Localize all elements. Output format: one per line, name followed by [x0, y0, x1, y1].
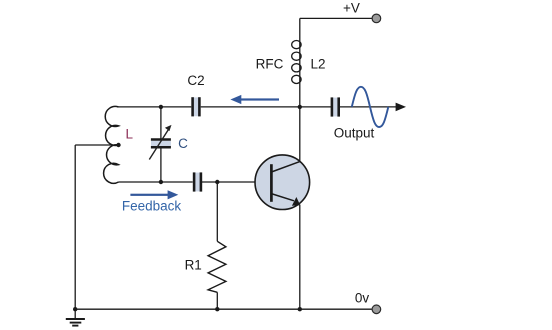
wire top rail mid: C2 to collector node — [201, 106, 331, 108]
svg-text:RFC: RFC — [256, 56, 284, 71]
arrow feedback (blue, pointing right) — [130, 190, 178, 199]
svg-text:Output: Output — [334, 125, 375, 140]
svg-text:L2: L2 — [310, 56, 325, 71]
wire emitter down — [299, 205, 301, 310]
arrow (blue, pointing left) above top rail — [230, 95, 279, 104]
inductor L (tank coil) — [104, 106, 119, 183]
svg-text:C2: C2 — [187, 73, 204, 88]
feedback capacitor — [194, 172, 201, 191]
terminal 0v — [372, 305, 381, 314]
wire C branch lower — [160, 148, 162, 182]
wire R1 top lead — [216, 182, 218, 241]
wire +V vertical through L2 to collector — [299, 18, 301, 161]
ground — [66, 309, 85, 325]
output capacitor — [332, 97, 339, 116]
wire center tap — [75, 144, 118, 146]
wire R1 bottom lead — [216, 292, 218, 309]
node center tap — [116, 143, 120, 147]
wire bottom rail — [75, 308, 372, 310]
sine wave — [352, 87, 389, 127]
svg-text:+V: +V — [343, 0, 360, 15]
svg-text:0v: 0v — [355, 291, 370, 306]
node C bottom — [159, 180, 163, 184]
svg-text:R1: R1 — [185, 258, 202, 273]
wire top rail right: output cap to arrow — [339, 106, 397, 108]
inductor L2 (RFC) — [292, 41, 301, 84]
node R1 top — [215, 180, 219, 184]
output arrowhead — [396, 103, 406, 112]
svg-text:C: C — [178, 136, 188, 151]
transistor (NPN) — [255, 155, 310, 210]
resistor R1 — [208, 241, 226, 292]
variable capacitor C — [149, 125, 171, 160]
terminal +V — [372, 14, 381, 23]
node top of C branch — [159, 105, 163, 109]
wire top rail left: L top to C2 — [119, 106, 192, 108]
node R1 bottom — [215, 307, 219, 311]
wire tank bottom right to base — [202, 181, 272, 183]
svg-text:L: L — [125, 127, 133, 142]
wire left vertical — [74, 145, 76, 309]
node ground junction — [73, 307, 77, 311]
node collector at top rail — [298, 105, 302, 109]
capacitor C2 — [193, 97, 200, 116]
node emitter at bottom rail — [298, 307, 302, 311]
wire +V horizontal — [300, 17, 372, 19]
wire tank bottom left — [119, 181, 193, 183]
svg-text:Feedback: Feedback — [122, 199, 182, 214]
wire C branch upper — [160, 107, 162, 139]
